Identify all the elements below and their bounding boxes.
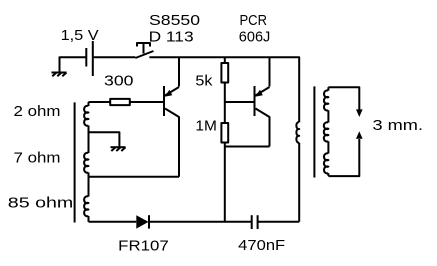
svg-text:5k: 5k — [195, 73, 213, 90]
svg-text:1M: 1M — [195, 118, 217, 135]
wire: secondary bottom to spark gap — [328, 139, 359, 176]
svg-text:7 ohm: 7 ohm — [14, 150, 61, 167]
svg-text:2 ohm: 2 ohm — [14, 103, 61, 120]
pushbutton switch D 113 — [135, 43, 153, 58]
svg-text:PCR: PCR — [240, 12, 268, 29]
wire: capacitor to right branch — [258, 221, 300, 223]
svg-text:S8550: S8550 — [149, 12, 200, 29]
winding 85 ohm — [84, 177, 88, 222]
ground (winding tap) — [111, 147, 126, 151]
ground (battery negative) — [52, 57, 67, 77]
wire: winding top to 300 resistor — [89, 101, 111, 103]
winding 2 ohm — [84, 102, 88, 133]
transformer T1 core (left) — [74, 102, 76, 222]
wire: 1M bottom to bottom rail — [224, 143, 226, 222]
wire: top rail to 5k resistor — [224, 57, 226, 63]
wire: tap to ground — [89, 132, 120, 147]
svg-text:D 113: D 113 — [149, 28, 194, 45]
wire: winding bottom to diode anode — [89, 221, 137, 223]
svg-text:FR107: FR107 — [118, 237, 169, 254]
transistor Q2 PCR 606J — [255, 86, 270, 147]
transformer T2 core — [313, 86, 315, 177]
wire: Q1 base from 300 resistor — [130, 101, 164, 103]
wire: diode cathode to capacitor — [149, 221, 251, 223]
wire: ground to battery negative plate — [60, 56, 87, 58]
svg-text:3 mm.: 3 mm. — [373, 117, 424, 134]
wire: Q2 base — [225, 101, 255, 103]
svg-text:300: 300 — [104, 73, 134, 90]
wire: battery positive to switch — [93, 56, 136, 58]
wire: secondary top to spark gap — [328, 87, 359, 110]
resistor 300 — [110, 99, 130, 105]
diode FR107 — [136, 215, 149, 228]
wire: Q1 emitter to top rail — [178, 57, 180, 86]
spark gap 3 mm — [356, 109, 363, 138]
transformer T2 primary winding — [296, 122, 299, 222]
svg-text:470nF: 470nF — [238, 237, 285, 254]
secondary winding — [324, 87, 329, 176]
wire: Q2 collector join to 1M line — [225, 146, 270, 148]
resistor 5k — [221, 63, 228, 83]
transistor Q1 S8550 — [164, 86, 179, 177]
wire: Q2 emitter to top rail — [269, 57, 271, 86]
wire: tap2 to Q1 collector — [89, 176, 180, 178]
battery 1,5 V — [86, 41, 93, 76]
resistor 1M — [221, 123, 228, 143]
wire: 5k bottom to 1M top (Q2 base node) — [224, 83, 226, 124]
wire: top rail from switch to right branch corner — [149, 57, 299, 122]
capacitor 470nF — [252, 215, 258, 229]
winding 7 ohm — [84, 133, 88, 177]
svg-text:606J: 606J — [239, 28, 270, 45]
svg-text:85 ohm: 85 ohm — [8, 195, 74, 212]
svg-text:1,5 V: 1,5 V — [61, 27, 99, 44]
